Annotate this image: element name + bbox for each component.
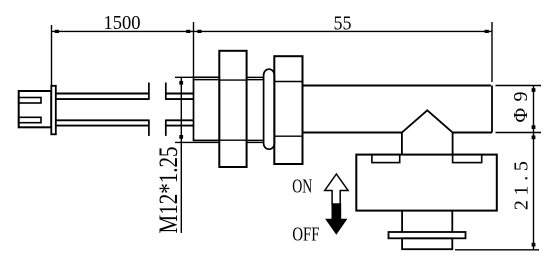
dimension 1500 line	[52, 30, 195, 32]
dimension M12 line and leader	[180, 77, 182, 233]
connector slot bottom	[19, 117, 41, 122]
float notch left	[372, 155, 400, 163]
wire break tick top-left	[148, 83, 150, 100]
float flange	[389, 232, 466, 238]
svg-text:ON: ON	[292, 176, 312, 198]
hex nut facet line bottom	[219, 139, 246, 141]
wire bottom pair left segment	[56, 119, 149, 121]
dimension 21.5 extension line bottom	[455, 249, 539, 251]
wire top pair right segment	[166, 93, 194, 95]
dimension 55 arrow right	[485, 30, 489, 33]
dimension M12 arrow top	[179, 81, 183, 85]
dimension M12 text	[154, 147, 183, 234]
dimension phi9 extension line bottom	[496, 132, 542, 134]
thread crest line top	[194, 79, 219, 81]
wire break tick top-right	[165, 83, 167, 100]
body section between nut and washer, line pairs	[247, 76, 264, 78]
wire break tick bottom-left	[148, 120, 150, 136]
arrow up hollow (ON direction)	[325, 174, 348, 205]
tube top edge	[303, 85, 491, 87]
dimension phi9 extension line top	[496, 85, 542, 87]
dimension phi9 line	[533, 86, 535, 133]
dimension 55 arrow left	[197, 30, 201, 33]
float bottom cap	[402, 238, 452, 249]
tube bottom edge left part	[303, 132, 402, 134]
dimension 1500 extension line left	[51, 25, 53, 86]
dimension M12 extension line bottom	[175, 141, 194, 143]
thread root line bottom	[194, 141, 220, 143]
dimension 21.5 arrow bottom	[532, 243, 536, 247]
tube right edge	[491, 86, 493, 133]
sensor body facet line top	[274, 81, 302, 83]
float stem left edge	[401, 211, 403, 232]
dimension M12 extension line top	[175, 76, 194, 78]
dimension 55 extension line right	[491, 22, 493, 82]
dimension 21.5 text	[511, 161, 533, 210]
svg-text:55: 55	[334, 13, 352, 35]
svg-text:21.5: 21.5	[511, 161, 533, 210]
svg-text:1500: 1500	[104, 12, 141, 34]
wire top pair left segment	[56, 93, 149, 95]
dimension phi9 text	[510, 92, 532, 123]
thread section M12	[194, 77, 220, 140]
chevron stem right	[452, 133, 454, 155]
connector slot top	[19, 98, 41, 104]
washer capsule	[264, 69, 275, 149]
chevron guide	[402, 110, 453, 132]
sensor body facet line bottom	[274, 135, 302, 137]
dimension phi9 arrow bottom	[532, 125, 536, 129]
tube bottom edge right part	[453, 132, 492, 134]
svg-text:OFF: OFF	[292, 224, 319, 246]
svg-text:M12*1.25: M12*1.25	[154, 147, 183, 234]
dimension 21.5 line	[533, 133, 535, 250]
float body	[356, 155, 497, 211]
wire bottom pair right segment	[166, 119, 194, 121]
dimension 55 extension line middle	[193, 22, 195, 78]
chevron stem left	[401, 133, 403, 155]
hex nut facet line top	[219, 79, 246, 81]
dimension 55 line	[194, 30, 492, 32]
dimension phi9 arrow top	[532, 88, 536, 92]
sensor body hex	[274, 56, 302, 164]
dimension 21.5 arrow top	[532, 136, 536, 140]
float stem right edge	[451, 211, 453, 232]
dimension M12 arrow bottom	[179, 135, 183, 139]
connector body	[19, 91, 52, 127]
float notch right	[453, 155, 482, 163]
dimension 1500 arrow left	[55, 30, 59, 33]
hex nut	[219, 51, 246, 167]
connector flange	[51, 86, 56, 135]
wire break tick bottom-right	[165, 120, 167, 136]
dimension 1500 arrow right	[186, 30, 190, 33]
arrow down solid (OFF direction)	[325, 203, 347, 234]
